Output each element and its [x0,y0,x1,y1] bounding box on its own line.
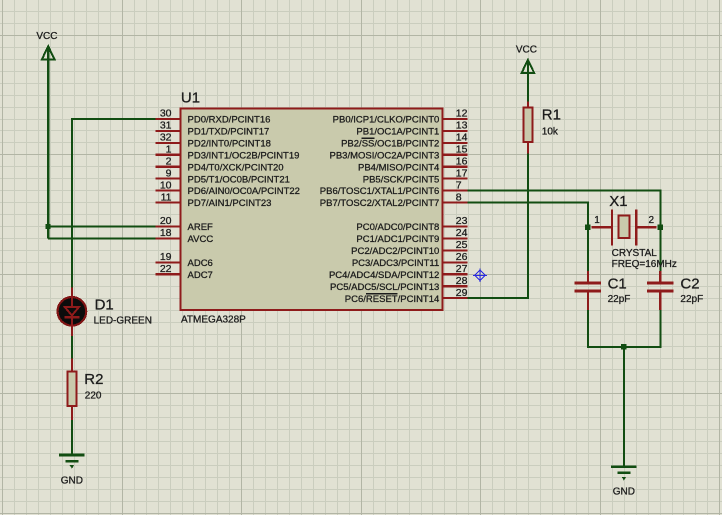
svg-text:10k: 10k [542,126,559,137]
svg-text:X1: X1 [609,193,627,210]
svg-text:30: 30 [160,108,172,120]
resistor R1 [523,101,532,153]
U1 pin numbers [160,108,468,299]
svg-text:PD3/INT1/OC2B/PCINT19: PD3/INT1/OC2B/PCINT19 [188,150,300,161]
svg-text:22pF: 22pF [680,294,703,305]
power VCC symbol right [522,60,535,73]
svg-text:26: 26 [456,251,468,263]
svg-text:PD0/RXD/PCINT16: PD0/RXD/PCINT16 [188,115,271,126]
svg-text:29: 29 [456,287,468,299]
svg-text:PC3/ADC3/PCINT11: PC3/ADC3/PCINT11 [352,258,439,269]
svg-text:PD7/AIN1/PCINT23: PD7/AIN1/PCINT23 [188,198,272,209]
svg-text:19: 19 [160,251,172,263]
svg-text:AREF: AREF [188,222,214,233]
label C2 [680,275,699,292]
capacitor C1 [575,271,602,310]
svg-text:22: 22 [160,263,172,275]
svg-text:2: 2 [649,215,655,226]
value 22pF C1 [608,294,631,305]
wire C2 bottom to ground node [624,292,660,347]
svg-text:PD2/INT0/PCINT18: PD2/INT0/PCINT18 [188,138,271,149]
net VCC right [516,44,537,55]
svg-text:C2: C2 [680,275,699,292]
svg-text:PC4/ADC4/SDA/PCINT12: PC4/ADC4/SDA/PCINT12 [329,270,439,281]
cursor origin marker [473,268,487,282]
svg-text:PB1/OC1A/PCINT1: PB1/OC1A/PCINT1 [356,126,439,137]
svg-text:D1: D1 [95,297,114,314]
svg-text:22pF: 22pF [608,294,631,305]
svg-text:PD1/TXD/PCINT17: PD1/TXD/PCINT17 [188,126,270,137]
svg-text:AVCC: AVCC [188,234,214,245]
svg-text:32: 32 [160,132,172,144]
capacitor C2 [647,271,674,310]
X1 pin number 1 [594,215,600,226]
svg-text:GND: GND [61,476,83,487]
svg-text:GND: GND [613,487,635,498]
svg-text:ADC6: ADC6 [188,258,213,269]
svg-text:PB6/TOSC1/XTAL1/PCINT6: PB6/TOSC1/XTAL1/PCINT6 [320,186,440,197]
svg-text:PD4/T0/XCK/PCINT20: PD4/T0/XCK/PCINT20 [188,162,284,173]
svg-text:18: 18 [160,227,172,239]
value 22pF C2 [680,294,703,305]
svg-text:R1: R1 [542,107,561,124]
label R1 [542,107,561,124]
svg-text:PC6/RESET/PCINT14: PC6/RESET/PCINT14 [345,294,440,305]
svg-text:PB3/MOSI/OC2A/PCINT3: PB3/MOSI/OC2A/PCINT3 [329,150,439,161]
ground GND left [59,455,85,469]
svg-text:14: 14 [456,132,468,144]
svg-text:1: 1 [594,215,600,226]
svg-text:2: 2 [166,155,172,167]
svg-text:23: 23 [456,215,468,227]
svg-text:1: 1 [166,143,172,155]
svg-text:ADC7: ADC7 [188,270,213,281]
svg-text:27: 27 [456,263,468,275]
wire ground node down to GND [623,347,625,466]
svg-text:17: 17 [456,167,468,179]
label C1 [608,275,627,292]
wire VCC down to AVCC row [47,60,49,239]
svg-text:PB5/SCK/PCINT5: PB5/SCK/PCINT5 [363,174,440,185]
svg-text:13: 13 [456,120,468,132]
net GND right label [613,487,635,498]
svg-text:ATMEGA328P: ATMEGA328P [181,314,246,325]
value 220 [85,390,102,401]
svg-text:PD5/T1/OC0B/PCINT21: PD5/T1/OC0B/PCINT21 [188,174,290,185]
svg-text:PC1/ADC1/PCINT9: PC1/ADC1/PCINT9 [356,234,439,245]
wire C1 bottom to ground node [588,292,624,347]
wire pin 7 XTAL1 to crystal pin 2 and C2 [468,191,661,282]
svg-text:PC0/ADC0/PCINT8: PC0/ADC0/PCINT8 [356,222,439,233]
wire pin 8 XTAL2 to crystal pin 1 and C1 [468,203,588,282]
value FREQ=16MHz [612,259,677,270]
svg-text:VCC: VCC [36,31,57,42]
svg-text:25: 25 [456,239,468,251]
pin 29 RESET overline [366,293,398,295]
svg-text:PB4/MISO/PCINT4: PB4/MISO/PCINT4 [358,162,439,173]
U1 pin name labels [188,115,440,305]
svg-text:PB7/TOSC2/XTAL2/PCINT7: PB7/TOSC2/XTAL2/PCINT7 [320,198,440,209]
wire VCC right to R1 [527,61,529,102]
junction crystal pin 2 [658,225,663,230]
ground GND right [611,467,637,481]
label X1 [609,193,627,210]
svg-text:9: 9 [166,167,172,179]
svg-text:R2: R2 [84,371,103,388]
label D1 [95,297,114,314]
svg-text:12: 12 [456,108,468,120]
junction at VCC/AREF [46,224,51,229]
svg-text:PC2/ADC2/PCINT10: PC2/ADC2/PCINT10 [351,246,439,257]
svg-text:220: 220 [85,390,102,401]
LED D1 [58,288,87,337]
svg-text:FREQ=16MHz: FREQ=16MHz [612,259,677,270]
wire LED to R2 [71,336,73,360]
U1 pin stubs [156,119,468,298]
IC U1 ATMEGA328P body [181,109,443,310]
svg-text:U1: U1 [181,89,200,106]
svg-text:16: 16 [456,155,468,167]
junction C1/C2 ground node [621,344,626,349]
resistor R2 [67,359,76,420]
svg-text:7: 7 [456,179,462,191]
svg-text:CRYSTAL: CRYSTAL [612,248,658,259]
net GND left label [61,476,83,487]
svg-text:VCC: VCC [516,44,537,55]
svg-text:20: 20 [160,215,172,227]
pin 14 SS overline [362,137,375,139]
value CRYSTAL [612,248,658,259]
svg-text:8: 8 [456,191,462,203]
svg-text:11: 11 [161,191,172,203]
wire R2 to ground [71,419,73,456]
svg-text:PD6/AIN0/OC0A/PCINT22: PD6/AIN0/OC0A/PCINT22 [188,186,300,197]
svg-text:C1: C1 [608,275,627,292]
svg-text:31: 31 [160,120,172,132]
value 10k [542,126,559,137]
svg-text:15: 15 [456,143,468,155]
svg-text:PB2/SS/OC1B/PCINT2: PB2/SS/OC1B/PCINT2 [341,138,439,149]
value LED-GREEN [94,316,152,327]
svg-text:LED-GREEN: LED-GREEN [94,316,152,327]
wire R1 to pin 29 RESET [468,153,528,298]
label U1 [181,89,200,106]
wire pin 30 PD0 to LED D1 [72,119,156,288]
svg-text:28: 28 [456,275,468,287]
net VCC left [36,31,57,42]
svg-text:10: 10 [160,179,172,191]
label R2 [84,371,103,388]
X1 pin number 2 [649,215,655,226]
junction crystal pin 1 [585,225,590,230]
wire VCC to AVCC pin 18 [48,237,155,239]
wire VCC to AREF pin 20 [48,225,155,227]
svg-text:PB0/ICP1/CLKO/PCINT0: PB0/ICP1/CLKO/PCINT0 [333,115,440,126]
svg-text:24: 24 [456,227,468,239]
crystal X1 [592,210,657,246]
value ATMEGA328P [181,314,246,325]
svg-text:PC5/ADC5/SCL/PCINT13: PC5/ADC5/SCL/PCINT13 [330,282,439,293]
power VCC symbol left [42,46,55,60]
